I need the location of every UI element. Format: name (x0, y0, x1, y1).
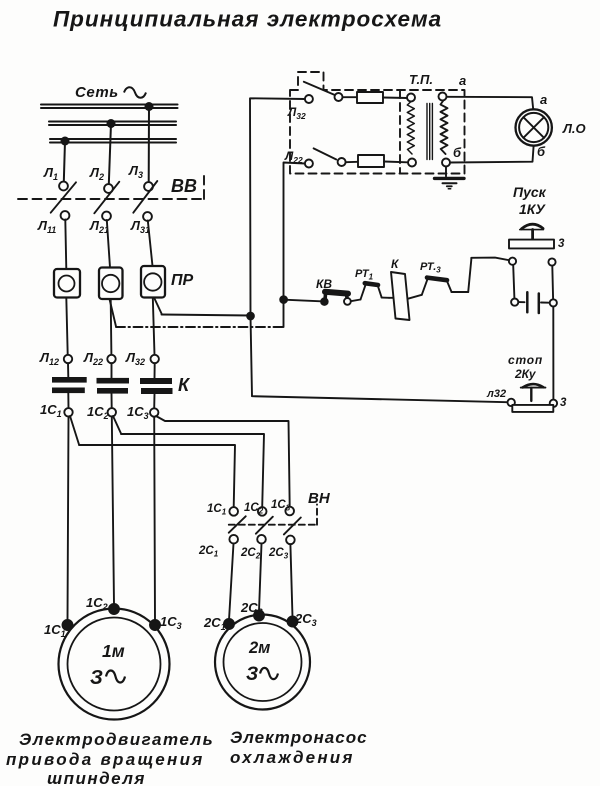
svg-text:2С3: 2С3 (268, 547, 289, 561)
svg-text:РТ1: РТ1 (355, 268, 374, 282)
svg-text:а: а (459, 73, 466, 88)
svg-text:б: б (537, 144, 546, 159)
svg-text:ПР: ПР (171, 272, 194, 289)
svg-text:З: З (246, 664, 258, 685)
svg-text:З: З (90, 667, 103, 689)
svg-text:1м: 1м (102, 641, 125, 661)
svg-text:а: а (540, 92, 547, 107)
svg-text:3: 3 (560, 397, 567, 409)
svg-text:1С1: 1С1 (40, 402, 62, 419)
svg-text:шпинделя: шпинделя (47, 769, 146, 786)
svg-text:л32: л32 (486, 388, 506, 400)
svg-text:Л12: Л12 (39, 350, 59, 367)
svg-text:Л3: Л3 (128, 163, 143, 180)
svg-text:К: К (391, 257, 400, 271)
svg-text:охлаждения: охлаждения (230, 748, 355, 767)
svg-text:Л2: Л2 (89, 165, 104, 182)
svg-text:1С3: 1С3 (160, 614, 182, 631)
svg-text:3: 3 (558, 238, 565, 250)
svg-text:1С1: 1С1 (207, 503, 227, 517)
svg-text:2С1: 2С1 (198, 545, 219, 559)
svg-text:Л32: Л32 (287, 105, 306, 121)
svg-text:2Ку: 2Ку (514, 367, 537, 381)
svg-text:2С3: 2С3 (294, 611, 317, 628)
svg-text:1С3: 1С3 (127, 404, 149, 421)
svg-text:1КУ: 1КУ (519, 201, 546, 217)
svg-text:Л32: Л32 (125, 350, 145, 367)
svg-text:КВ: КВ (316, 277, 332, 291)
svg-text:привода вращения: привода вращения (6, 750, 205, 769)
svg-text:2м: 2м (248, 639, 270, 657)
svg-text:Л1: Л1 (43, 165, 58, 182)
svg-text:1С2: 1С2 (244, 502, 264, 516)
svg-text:Т.П.: Т.П. (409, 72, 433, 87)
svg-text:1С3: 1С3 (271, 499, 291, 513)
svg-text:2С2: 2С2 (240, 547, 261, 561)
svg-text:Электронасос: Электронасос (230, 728, 368, 747)
svg-text:Пуск: Пуск (513, 184, 547, 200)
svg-text:ВН: ВН (308, 490, 331, 507)
svg-text:Л22: Л22 (83, 350, 103, 367)
svg-text:ВВ: ВВ (171, 176, 197, 196)
svg-text:1С2: 1С2 (86, 595, 108, 612)
svg-text:2С1: 2С1 (203, 615, 226, 632)
svg-text:Сеть: Сеть (75, 84, 119, 101)
svg-text:Принципиальная электросхема: Принципиальная электросхема (53, 7, 442, 32)
svg-text:Л22: Л22 (284, 149, 303, 165)
svg-text:Л11: Л11 (37, 218, 56, 235)
svg-text:РТ.3: РТ.3 (420, 261, 441, 275)
svg-text:б: б (453, 145, 462, 160)
svg-text:1С2: 1С2 (87, 404, 109, 421)
svg-text:стоп: стоп (508, 353, 543, 367)
svg-text:К: К (178, 375, 191, 395)
svg-text:Л.О: Л.О (562, 121, 586, 136)
svg-text:Электродвигатель: Электродвигатель (19, 730, 214, 749)
